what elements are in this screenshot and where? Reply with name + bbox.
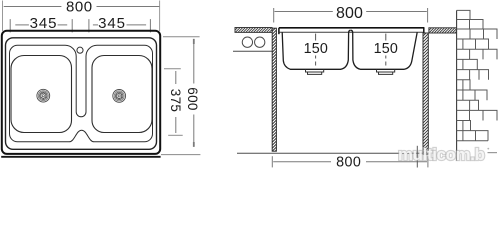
svg-text:345: 345 (30, 15, 58, 32)
extension line from sink top right to 600 dimension (163, 36, 200, 38)
345 extension tick 1 (9, 19, 11, 32)
375 bottom extension line (168, 134, 183, 136)
sink outer edge (top view, thick rounded rectangle) (2, 31, 160, 154)
345 extension tick 3 (88, 19, 90, 32)
600 end ticks (193, 39, 195, 44)
svg-text:150: 150 (374, 41, 398, 57)
right bowl drain (113, 90, 126, 103)
345 extension tick 2 (71, 19, 73, 32)
svg-text:375: 375 (168, 89, 183, 112)
left front edge line under circles (233, 50, 272, 52)
watermark dot (487, 148, 489, 150)
sink bottom edge shadow line (1, 156, 160, 158)
section: 800 top extension tick (left) (273, 8, 275, 23)
bowl surround contour (peanut around both bowls with tap dip and bottom hump) (10, 45, 153, 142)
brick wall courses (457, 10, 497, 140)
svg-text:800: 800 (66, 0, 93, 15)
left bowl drain (section) (306, 70, 324, 75)
watermark vertical line artifact (416, 146, 418, 168)
svg-text:150: 150 (304, 41, 328, 57)
svg-text:800: 800 (336, 155, 361, 171)
dimension 800 line (section bottom) (273, 161, 331, 163)
sink rim inner line (rounded rectangle) (6, 38, 157, 150)
tap hole circle (77, 47, 83, 53)
sink rim left hook (278, 28, 280, 34)
svg-text:800: 800 (336, 5, 363, 22)
right bowl depth centerline (385, 34, 387, 41)
left bowl depth centerline (315, 34, 317, 41)
section: 800 top extension tick (right) (427, 8, 429, 23)
left view: overall width extension line (right) (159, 1, 161, 32)
sink rim far edge line (thin) (280, 31, 424, 33)
watermark dash right (488, 152, 498, 154)
extension line from sink bottom right to 600 dimension (161, 154, 200, 156)
svg-text:600: 600 (185, 87, 200, 110)
sink rim right hook (423, 28, 425, 33)
dimension 800 line (left view top) (4, 6, 62, 8)
375 top extension line (164, 68, 181, 70)
tap holes symbol circle 2 (255, 37, 265, 47)
dimension 345 line segments (first) (15, 24, 29, 26)
left bowl (rounded square) (11, 56, 72, 133)
section: 800 bottom extension tick (left) (271, 156, 273, 167)
tap holes symbol circle 1 (242, 37, 252, 47)
right bowl drain (section) (377, 70, 395, 75)
svg-text:345: 345 (98, 15, 126, 32)
left bowl section profile (282, 30, 350, 69)
right bowl section profile (351, 30, 417, 69)
section: 800 bottom extension tick (right) (427, 156, 429, 167)
345 extension tick 4 (149, 19, 151, 32)
dimension 600 line (vertical) (193, 39, 195, 84)
dimension 375 line (vertical) (175, 71, 177, 84)
left bowl drain (37, 89, 50, 102)
dimension 800 line (section top) (275, 11, 333, 13)
cabinet bottom line (237, 152, 428, 154)
sink rim top line (section, thick) (279, 27, 425, 29)
left view: overall width extension line (left) (2, 1, 4, 32)
svg-text:multicom.b: multicom.b (398, 145, 485, 164)
right bowl (rounded square) (92, 56, 152, 133)
brick wall face line (456, 10, 458, 160)
dimension 345 line segments (second) (93, 24, 98, 26)
